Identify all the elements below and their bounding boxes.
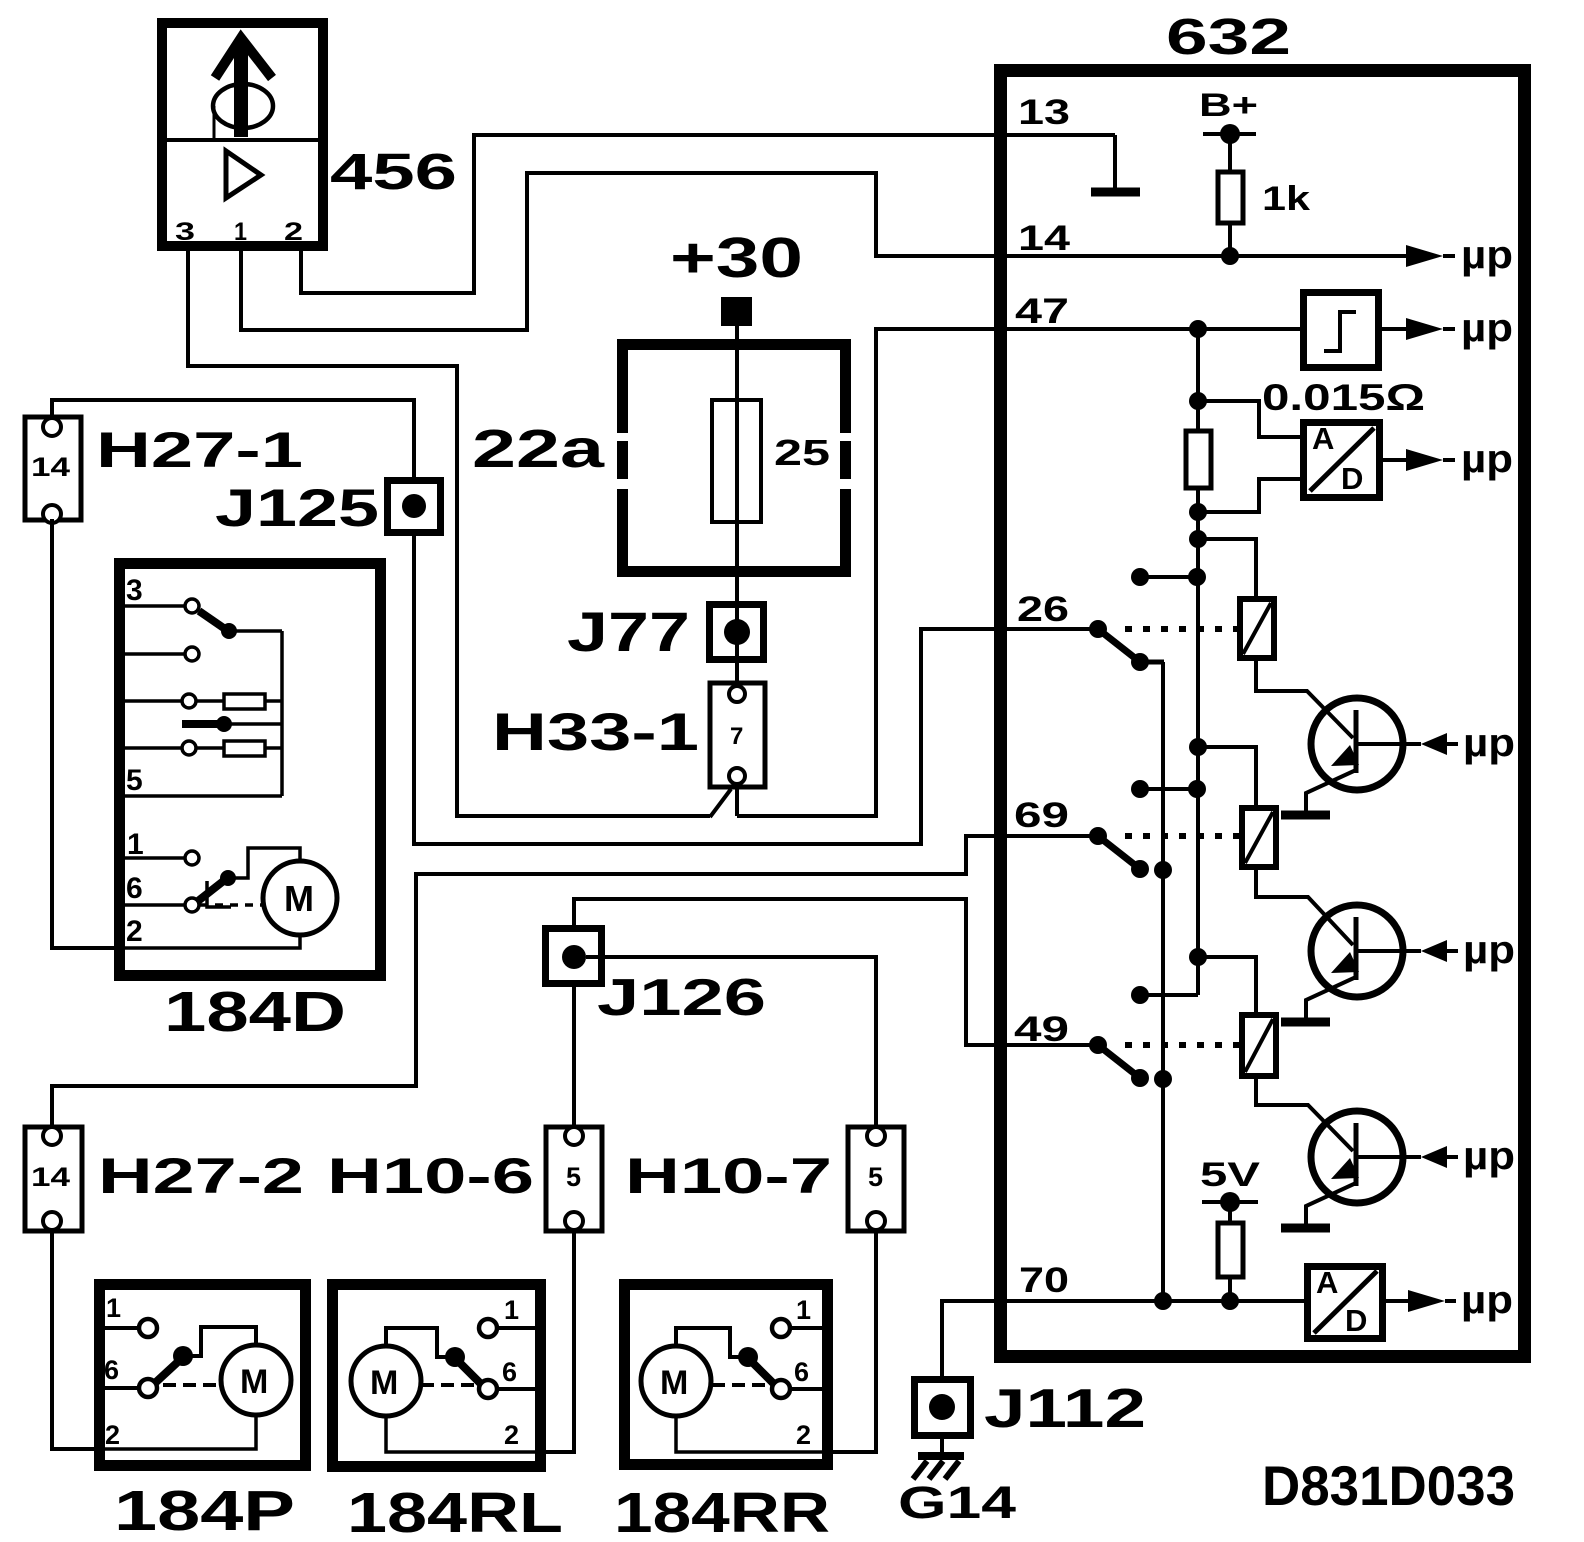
svg-text:1: 1 — [796, 1295, 811, 1325]
switch arm 69 — [1098, 836, 1172, 879]
svg-text:2: 2 — [504, 1420, 519, 1450]
svg-text:M: M — [370, 1364, 398, 1402]
svg-text:1: 1 — [234, 218, 247, 246]
motor unit 184RL box — [333, 1285, 541, 1467]
B+ terminal — [1203, 124, 1256, 144]
184D mechanical link dashes — [200, 903, 263, 907]
184D pin 3 contact — [125, 599, 199, 613]
184P pin 1 contact — [103, 1319, 157, 1337]
junction relay1 feed — [1189, 530, 1207, 548]
connector H33-1 — [710, 683, 765, 787]
184RL pin 1 contact — [479, 1319, 536, 1337]
junction rail x1163 on pin70 — [1154, 1292, 1172, 1310]
svg-text:D: D — [1341, 461, 1363, 496]
wire 456 pin1 to 632 pin14 — [241, 173, 1406, 330]
svg-text:A: A — [1316, 1265, 1338, 1300]
svg-text:J126: J126 — [597, 969, 766, 1027]
wire A/D output — [1381, 458, 1406, 462]
node pair upper contact 26 — [1131, 568, 1206, 586]
switch arm 49 — [1098, 1045, 1172, 1088]
184D pin 1 contact — [125, 851, 199, 865]
wire rail to relay R3 top — [1198, 957, 1256, 1012]
svg-text:1k: 1k — [1262, 180, 1310, 218]
svg-text:456: 456 — [330, 143, 457, 200]
svg-text:2: 2 — [796, 1420, 811, 1450]
wire relay R2 to transistor Q2 — [1256, 870, 1353, 945]
ground Q3 emitter — [1281, 1224, 1330, 1233]
relay coil R3 — [1242, 1015, 1276, 1076]
connector H10-6 — [546, 1127, 602, 1231]
A/D converter U2 — [1304, 421, 1380, 498]
svg-text:H10-6: H10-6 — [327, 1148, 534, 1204]
junction shunt bottom — [1189, 503, 1207, 521]
wire H27-1 to J125 — [52, 400, 414, 477]
junction J126 — [546, 929, 602, 984]
184D wiper — [182, 716, 282, 732]
wire H33-1 pin7 diagonal tap — [710, 784, 737, 817]
184D motor to pin 2 — [125, 935, 300, 948]
motor unit 184P box — [100, 1285, 306, 1466]
svg-text:632: 632 — [1166, 8, 1291, 65]
svg-text:184P: 184P — [114, 1479, 295, 1542]
svg-text:184D: 184D — [164, 980, 346, 1044]
junction J112 — [915, 1380, 971, 1436]
switch pivot 69 — [1089, 827, 1107, 845]
svg-text:M: M — [660, 1364, 688, 1402]
junction relay2 feed — [1189, 738, 1207, 756]
svg-text:69: 69 — [1014, 796, 1069, 835]
456 sunroof symbol ellipse — [213, 84, 273, 138]
motor M 184RR — [641, 1346, 711, 1416]
microprocessor arrow pin14 — [1406, 245, 1455, 267]
svg-text:µp: µp — [1463, 1134, 1515, 1178]
svg-text:5: 5 — [868, 1162, 883, 1192]
resistor 1k — [1218, 134, 1243, 256]
ground Q2 emitter — [1281, 1018, 1330, 1027]
svg-text:µp: µp — [1463, 928, 1515, 972]
svg-text:J77: J77 — [567, 600, 690, 663]
wire 632 pin49 to J126 — [574, 899, 1098, 1045]
svg-text:µp: µp — [1461, 437, 1513, 481]
wire node A to 632 pin47 — [737, 329, 1300, 816]
wire 632 pin69 to H27-2 — [52, 836, 1098, 1125]
184D resistor branch 1 — [125, 694, 282, 709]
svg-text:70: 70 — [1019, 1261, 1069, 1300]
svg-text:7: 7 — [730, 723, 743, 750]
184P pin 6 contact — [103, 1379, 157, 1397]
node upper contact 49 — [1131, 986, 1198, 1004]
184D motor switch arm — [198, 870, 236, 901]
dotted link 49 — [1125, 1042, 1239, 1048]
connector H27-2 — [25, 1127, 82, 1231]
wire rail to relay R1 top — [1198, 539, 1256, 596]
184D open contact — [125, 647, 199, 661]
184RR wire arm to motor — [676, 1328, 748, 1357]
wire relay R3 to transistor Q3 — [1256, 1079, 1353, 1151]
5V terminal — [1202, 1192, 1258, 1212]
184P wire arm to motor — [183, 1327, 256, 1356]
shunt resistor 0.015 — [1186, 431, 1211, 488]
motor M 184RL — [351, 1346, 421, 1416]
184D actuator mark — [207, 881, 231, 907]
transistor Q3 — [1306, 1111, 1421, 1225]
svg-text:H33-1: H33-1 — [492, 703, 699, 762]
svg-text:+30: +30 — [670, 226, 803, 290]
svg-text:H27-2: H27-2 — [98, 1148, 304, 1204]
microprocessor arrow pin47 — [1406, 318, 1455, 340]
184D pin 5 line — [125, 794, 282, 798]
comparator U1 schmitt box — [1304, 293, 1379, 368]
motor unit 184D box — [120, 564, 381, 976]
184RL wire arm to motor — [386, 1328, 455, 1357]
svg-text:H10-7: H10-7 — [625, 1148, 832, 1204]
wire J125 to 632 pin26 — [414, 536, 1098, 844]
motor M 184D — [263, 861, 337, 935]
junction 5V resistor on pin70 — [1221, 1292, 1239, 1310]
wire H27-1 to 184D pin2 — [52, 519, 125, 948]
svg-text:6: 6 — [794, 1357, 809, 1387]
svg-text:J125: J125 — [215, 479, 379, 538]
wire schmitt output — [1381, 327, 1406, 331]
junction 1k to pin14 line — [1221, 247, 1239, 265]
sense rail x1163 — [1161, 662, 1165, 1301]
A/D converter U3 — [1308, 1265, 1383, 1339]
relay coil R2 — [1242, 808, 1276, 867]
svg-text:G14: G14 — [898, 1477, 1016, 1528]
motor M 184P — [221, 1345, 291, 1415]
wire H10-7 to 184RR pin2 — [824, 1230, 876, 1452]
svg-text:184RR: 184RR — [614, 1481, 830, 1542]
microprocessor arrow Q3 base — [1421, 1146, 1458, 1168]
switch pivot 26 — [1089, 620, 1107, 638]
wire J126 to H10-6 — [572, 985, 576, 1126]
184P motor to pin 2 — [102, 1415, 256, 1449]
svg-text:47: 47 — [1015, 292, 1069, 331]
184RR mechanical link dashes — [712, 1383, 772, 1387]
svg-text:µp: µp — [1461, 1278, 1513, 1322]
switch pivot 49 — [1089, 1036, 1107, 1054]
svg-text:A: A — [1312, 421, 1334, 456]
wire H10-6 to 184RL pin2 — [538, 1230, 574, 1452]
184D selector arm — [199, 611, 282, 639]
transistor Q2 — [1306, 905, 1421, 1019]
svg-text:6: 6 — [502, 1357, 517, 1387]
184RL pin 6 contact — [479, 1380, 536, 1398]
svg-text:5: 5 — [126, 764, 143, 797]
svg-text:µp: µp — [1463, 721, 1515, 765]
184RL switch arm — [445, 1347, 481, 1384]
svg-text:5V: 5V — [1200, 1156, 1260, 1194]
svg-text:2: 2 — [105, 1420, 120, 1450]
svg-text:25: 25 — [774, 432, 830, 473]
+30 supply terminal — [721, 297, 752, 326]
184P switch arm — [155, 1346, 193, 1383]
ground Q1 emitter — [1281, 811, 1330, 820]
184RR pin 1 contact — [772, 1319, 822, 1337]
fusebox 22a dashed border — [617, 339, 851, 577]
motor unit 184RR box — [625, 1285, 828, 1465]
svg-text:13: 13 — [1018, 93, 1070, 132]
184RR pin 6 contact — [772, 1380, 822, 1398]
junction shunt top — [1189, 392, 1207, 410]
junction J77 — [710, 605, 764, 660]
junction J125 — [388, 481, 441, 533]
microprocessor arrow Q1 base — [1421, 733, 1458, 755]
184D resistor branch 2 — [125, 741, 282, 756]
svg-text:D: D — [1345, 1303, 1367, 1338]
connector H10-7 — [848, 1127, 904, 1231]
184RR switch arm — [738, 1347, 774, 1384]
microprocessor arrow A/D1 — [1406, 449, 1455, 471]
svg-text:6: 6 — [104, 1355, 119, 1385]
relay coil R1 — [1240, 599, 1274, 658]
svg-text:1: 1 — [106, 1293, 121, 1323]
svg-text:22a: 22a — [472, 419, 605, 479]
microprocessor arrow A/D2 — [1408, 1290, 1456, 1312]
svg-text:3: 3 — [175, 218, 195, 246]
svg-text:3: 3 — [126, 574, 143, 607]
wire shunt top to A/D — [1198, 401, 1303, 437]
184P mechanical link dashes — [163, 1383, 221, 1387]
junction pin47 rail — [1189, 320, 1207, 338]
184RL motor to pin 2 — [386, 1416, 538, 1452]
microprocessor arrow Q2 base — [1421, 940, 1458, 962]
wire rail to relay R2 top — [1198, 747, 1256, 805]
sense rail x1198 — [1196, 329, 1200, 995]
switch arm 26 — [1098, 629, 1164, 671]
node pair upper contact 69 — [1131, 780, 1206, 798]
svg-text:J112: J112 — [984, 1377, 1146, 1439]
ECU 632 box — [1001, 71, 1525, 1357]
ground inside 632 pin13 — [1091, 135, 1140, 192]
wire A/D2 output — [1385, 1299, 1408, 1303]
wire 456 pin2 to 632 pin13 — [301, 135, 1115, 293]
wire 456 pin3 to node A — [188, 246, 710, 816]
svg-text:M: M — [284, 878, 314, 919]
svg-text:2: 2 — [126, 915, 143, 948]
dotted link 69 — [1125, 833, 1239, 839]
456 tilt triangle symbol — [226, 151, 261, 198]
svg-text:µp: µp — [1461, 306, 1513, 350]
transistor Q1 — [1306, 698, 1421, 812]
wire +30 through fuse to H33-1 — [735, 326, 739, 684]
svg-text:6: 6 — [126, 872, 143, 905]
184D inner rail — [280, 631, 284, 796]
svg-text:M: M — [240, 1363, 268, 1401]
184RL mechanical link dashes — [421, 1383, 479, 1387]
switch unit 456 box — [162, 23, 324, 246]
svg-text:26: 26 — [1017, 590, 1069, 629]
svg-text:0.015Ω: 0.015Ω — [1262, 377, 1425, 418]
svg-text:1: 1 — [127, 828, 144, 861]
svg-text:184RL: 184RL — [347, 1481, 563, 1542]
wire J126 to H10-7 — [586, 957, 876, 1126]
ground G14 — [913, 1439, 964, 1479]
svg-text:1: 1 — [504, 1295, 519, 1325]
svg-text:B+: B+ — [1199, 87, 1258, 123]
junction relay3 feed — [1189, 948, 1207, 966]
wire H27-2 to 184P pin2 — [52, 1230, 102, 1449]
svg-text:µp: µp — [1461, 233, 1513, 277]
svg-text:2: 2 — [284, 218, 303, 246]
svg-text:14: 14 — [31, 1162, 70, 1192]
wire shunt bottom to A/D — [1198, 479, 1303, 512]
dotted link 26 — [1125, 626, 1237, 632]
456 sunroof symbol arrow — [215, 38, 272, 137]
wire J112 to 632 pin70 — [942, 1301, 1304, 1378]
svg-text:5: 5 — [566, 1162, 581, 1192]
184RR motor to pin 2 — [676, 1416, 824, 1452]
svg-text:14: 14 — [31, 452, 70, 482]
184D wire arm to motor — [228, 848, 300, 878]
fuse 25 — [712, 400, 761, 522]
resistor pull-up 5V — [1218, 1202, 1243, 1301]
svg-text:H27-1: H27-1 — [96, 422, 303, 478]
svg-text:D831D033: D831D033 — [1262, 1454, 1515, 1517]
svg-text:14: 14 — [1018, 219, 1071, 258]
wire relay R1 to transistor Q1 — [1256, 661, 1353, 738]
184D pin 6 contact — [125, 898, 199, 912]
connector H27-1 — [25, 417, 81, 523]
